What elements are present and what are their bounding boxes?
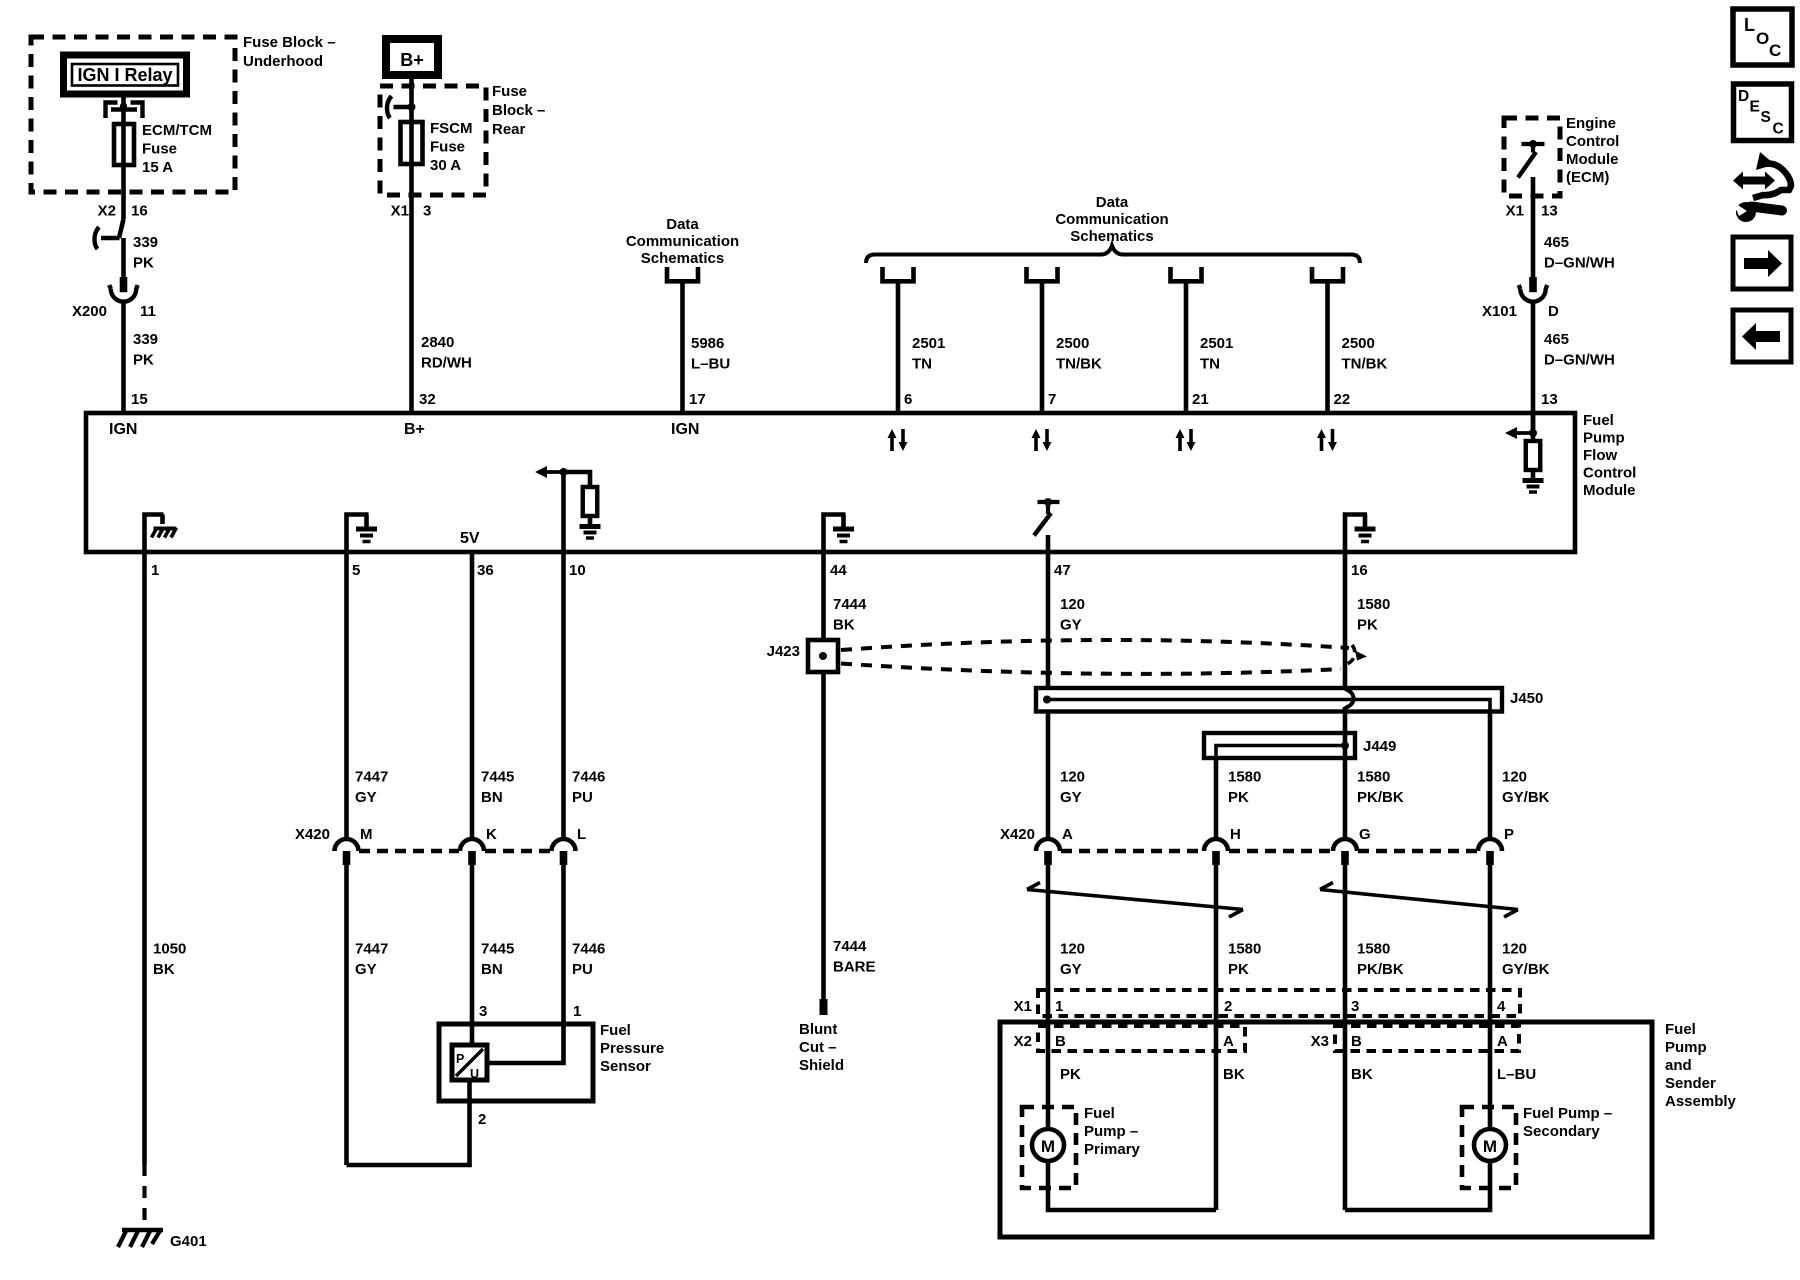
svg-text:RD/WH: RD/WH xyxy=(421,355,472,372)
svg-text:44: 44 xyxy=(830,562,847,579)
svg-text:2: 2 xyxy=(1224,998,1232,1015)
svg-text:Cut –: Cut – xyxy=(799,1039,837,1056)
svg-text:7446: 7446 xyxy=(572,769,605,786)
wire 120 GY pin47 to J450 xyxy=(1046,552,1051,688)
labels X1 pins 1 2 3 4 xyxy=(1055,998,1506,1015)
icon hand with arrows and wrench xyxy=(1733,152,1791,222)
svg-text:X1: X1 xyxy=(1506,203,1524,220)
svg-text:BK: BK xyxy=(1223,1066,1245,1083)
svg-text:A: A xyxy=(1062,826,1073,843)
wire 1050 BK xyxy=(142,552,147,1164)
svg-text:PK: PK xyxy=(133,255,154,272)
svg-text:A: A xyxy=(1497,1033,1508,1050)
CAN bus arrows xyxy=(1178,437,1182,451)
svg-text:A: A xyxy=(1223,1033,1234,1050)
svg-text:GY/BK: GY/BK xyxy=(1502,961,1550,978)
svg-text:Data: Data xyxy=(1096,194,1129,211)
terminal hook at FSCM fuse xyxy=(394,105,412,110)
ECM dashed box xyxy=(1504,118,1560,196)
svg-text:Underhood: Underhood xyxy=(243,53,323,70)
wire ECM pin13 xyxy=(1531,177,1536,277)
svg-text:IGN I Relay: IGN I Relay xyxy=(77,65,172,85)
svg-text:32: 32 xyxy=(419,391,436,408)
svg-text:2501: 2501 xyxy=(1200,335,1233,352)
svg-text:7445: 7445 xyxy=(481,769,514,786)
svg-text:B: B xyxy=(1055,1033,1066,1050)
svg-text:M: M xyxy=(1041,1137,1055,1156)
svg-text:7447: 7447 xyxy=(355,769,388,786)
svg-text:Shield: Shield xyxy=(799,1057,844,1074)
X420 dashed link H-G xyxy=(1229,849,1332,853)
svg-text:PU: PU xyxy=(572,789,593,806)
connector X2 dashed row xyxy=(1038,1026,1245,1051)
splice J423 xyxy=(808,640,838,672)
svg-text:5986: 5986 xyxy=(691,335,724,352)
svg-text:O: O xyxy=(1756,29,1769,48)
svg-text:Schematics: Schematics xyxy=(641,250,724,267)
off-page bracket data wire 21 xyxy=(1171,267,1202,281)
svg-text:X1: X1 xyxy=(1014,998,1032,1015)
splice pack J450 xyxy=(1036,688,1502,712)
svg-text:16: 16 xyxy=(1351,562,1368,579)
svg-text:2500: 2500 xyxy=(1342,335,1375,352)
svg-text:Fuel: Fuel xyxy=(600,1022,631,1039)
svg-text:X3: X3 xyxy=(1311,1033,1329,1050)
svg-text:465: 465 xyxy=(1544,331,1569,348)
svg-text:13: 13 xyxy=(1541,391,1558,408)
connector X420 terminal K xyxy=(460,839,484,851)
svg-text:B+: B+ xyxy=(400,50,424,70)
svg-text:1: 1 xyxy=(1055,998,1063,1015)
svg-text:Module: Module xyxy=(1566,151,1619,168)
icon arrow right box xyxy=(1733,237,1791,289)
wire 5986 L-BU xyxy=(680,281,685,413)
wire 7446 PU upper xyxy=(561,552,566,839)
B+ feed box xyxy=(386,39,438,75)
svg-text:J423: J423 xyxy=(767,643,800,660)
off-page bracket data wire 6 xyxy=(883,267,914,281)
svg-text:7: 7 xyxy=(1048,391,1056,408)
X420 dashed link M-K xyxy=(359,849,459,853)
wire 2500 TN/BK pin 7 xyxy=(1040,281,1045,413)
fuel pressure sensor box xyxy=(439,1024,593,1101)
svg-text:120: 120 xyxy=(1502,769,1527,786)
wire 2840 RD/WH xyxy=(409,195,414,413)
svg-text:Communication: Communication xyxy=(626,233,739,250)
svg-text:BN: BN xyxy=(481,789,503,806)
connector X420 terminal P xyxy=(1478,839,1502,851)
svg-text:X101: X101 xyxy=(1482,303,1517,320)
svg-text:ECM/TCM: ECM/TCM xyxy=(142,122,212,139)
shield twisted pair dashed ellipse xyxy=(841,640,1367,674)
pin10 internal: 5V pull-up arrow resistor ground xyxy=(535,466,601,552)
svg-text:X2: X2 xyxy=(98,203,116,220)
svg-text:GY: GY xyxy=(355,961,377,978)
labels X3 pins B A xyxy=(1351,1033,1508,1050)
connector X3 dashed row xyxy=(1335,1026,1519,1051)
off-page bracket data wire 22 xyxy=(1312,267,1343,281)
connector X420 terminal A xyxy=(1036,839,1060,851)
svg-text:BARE: BARE xyxy=(833,959,876,976)
svg-text:465: 465 xyxy=(1544,234,1569,251)
wire primary pump loop xyxy=(1048,1161,1216,1210)
icon LOC box xyxy=(1733,9,1792,65)
svg-text:GY: GY xyxy=(1060,789,1082,806)
svg-text:Data: Data xyxy=(666,216,699,233)
wire secondary pump loop xyxy=(1345,1161,1490,1210)
wire 7447 GY upper xyxy=(344,552,349,839)
svg-text:22: 22 xyxy=(1334,391,1351,408)
svg-text:3: 3 xyxy=(479,1003,487,1020)
svg-text:Pump: Pump xyxy=(1583,430,1625,447)
in-line connector X101 terminal D xyxy=(1529,277,1537,292)
svg-text:M: M xyxy=(360,826,373,843)
svg-text:K: K xyxy=(486,826,497,843)
svg-text:S: S xyxy=(1761,109,1771,126)
connector X420 terminal G xyxy=(1333,839,1357,851)
svg-text:PK: PK xyxy=(133,352,154,369)
svg-text:X2: X2 xyxy=(1014,1033,1032,1050)
pin1 internal chassis ground xyxy=(145,515,177,553)
svg-text:PK: PK xyxy=(1357,617,1378,634)
svg-text:P: P xyxy=(1504,826,1514,843)
icon DESC box xyxy=(1734,84,1792,141)
svg-text:4: 4 xyxy=(1497,998,1506,1015)
svg-text:Fuel Pump –: Fuel Pump – xyxy=(1523,1105,1612,1122)
svg-text:U: U xyxy=(470,1067,479,1081)
svg-text:120: 120 xyxy=(1060,941,1085,958)
fuel pump primary dashed box xyxy=(1022,1107,1076,1188)
wire 2500 TN/BK pin 22 xyxy=(1325,281,1330,413)
svg-text:TN/BK: TN/BK xyxy=(1342,356,1388,373)
svg-text:D: D xyxy=(1738,88,1749,105)
svg-text:47: 47 xyxy=(1054,562,1071,579)
connector X420 terminal H xyxy=(1204,839,1228,851)
wire 7445 BN lower xyxy=(470,865,475,1024)
wire 339 PK lower xyxy=(121,303,126,413)
svg-text:30 A: 30 A xyxy=(430,157,461,174)
fuse F1 ECM/TCM 15A body xyxy=(114,108,134,192)
svg-text:1: 1 xyxy=(151,562,159,579)
svg-text:2501: 2501 xyxy=(912,335,945,352)
svg-text:J450: J450 xyxy=(1510,690,1543,707)
svg-text:21: 21 xyxy=(1192,391,1209,408)
svg-text:GY/BK: GY/BK xyxy=(1502,789,1550,806)
svg-text:G: G xyxy=(1359,826,1371,843)
fuel pump and sender assembly box xyxy=(1000,1022,1652,1237)
wire 7445 BN upper xyxy=(470,552,475,839)
wire 7444 BK to shield end xyxy=(821,672,826,999)
svg-text:Engine: Engine xyxy=(1566,115,1616,132)
svg-text:H: H xyxy=(1230,826,1241,843)
svg-text:BK: BK xyxy=(153,961,175,978)
svg-text:B: B xyxy=(1351,1033,1362,1050)
motor M secondary xyxy=(1474,1129,1506,1161)
wire 339 PK upper xyxy=(121,238,126,277)
module box Fuel Pump Flow Control Module xyxy=(86,413,1575,552)
svg-text:5: 5 xyxy=(352,562,360,579)
connector X420 terminal M xyxy=(335,839,359,851)
wire B+ to junction xyxy=(409,76,414,195)
svg-text:Control: Control xyxy=(1566,133,1619,150)
wire 2501 TN pin 21 xyxy=(1184,281,1189,413)
svg-text:Control: Control xyxy=(1583,465,1636,482)
CAN bus arrows xyxy=(1034,437,1038,451)
svg-text:B+: B+ xyxy=(404,421,425,438)
wire 120 GY/BK J450 to X420 P xyxy=(1488,711,1493,839)
fuse block rear dashed box xyxy=(380,86,486,195)
svg-text:6: 6 xyxy=(904,391,912,408)
svg-text:10: 10 xyxy=(569,562,586,579)
module pin numbers bottom xyxy=(151,562,1368,579)
svg-text:1580: 1580 xyxy=(1228,769,1261,786)
svg-text:Fuel: Fuel xyxy=(1665,1021,1696,1038)
svg-text:7446: 7446 xyxy=(572,941,605,958)
svg-text:IGN: IGN xyxy=(109,421,137,438)
blunt cut shield terminal xyxy=(820,999,828,1015)
svg-text:Fuse: Fuse xyxy=(492,83,527,100)
svg-text:PK/BK: PK/BK xyxy=(1357,789,1404,806)
relay IGN I Relay box xyxy=(64,55,187,94)
in-line connector X200 terminal 11 xyxy=(120,277,128,292)
fuse holder clips xyxy=(106,102,143,118)
pressure transducer P/U symbol xyxy=(452,1045,487,1081)
svg-text:5V: 5V xyxy=(460,530,480,547)
svg-text:BN: BN xyxy=(481,961,503,978)
svg-text:339: 339 xyxy=(133,234,158,251)
labels X2 pins B A xyxy=(1055,1033,1234,1050)
fuel pump secondary dashed box xyxy=(1462,1107,1516,1188)
fuse block underhood dashed box xyxy=(31,37,235,192)
svg-text:15: 15 xyxy=(131,391,148,408)
svg-text:C: C xyxy=(1769,41,1781,60)
connector terminal hook X2-16 xyxy=(101,236,120,241)
wire 1580 PK J449 to X420 H xyxy=(1214,758,1219,839)
svg-text:Rear: Rear xyxy=(492,121,526,138)
svg-text:1: 1 xyxy=(573,1003,581,1020)
X420 dashed link K-L xyxy=(485,849,550,853)
pin13 internal: arrow junction resistor ground xyxy=(1505,413,1544,492)
wire 120 GY J450 to X420 A xyxy=(1046,711,1051,839)
svg-text:Sender: Sender xyxy=(1665,1075,1716,1092)
X420 dashed link G-P xyxy=(1358,849,1477,853)
wire relay to fuse holder xyxy=(121,94,126,108)
wires A H G P below connector xyxy=(1048,865,1490,1210)
svg-text:3: 3 xyxy=(1351,998,1359,1015)
svg-text:D–GN/WH: D–GN/WH xyxy=(1544,255,1615,272)
svg-text:Pressure: Pressure xyxy=(600,1040,664,1057)
motor M primary xyxy=(1032,1129,1064,1161)
svg-text:TN: TN xyxy=(1200,356,1220,373)
CAN bus arrows xyxy=(1320,437,1324,451)
svg-text:120: 120 xyxy=(1060,769,1085,786)
svg-text:X200: X200 xyxy=(72,303,107,320)
svg-text:IGN: IGN xyxy=(671,421,699,438)
svg-text:TN/BK: TN/BK xyxy=(1056,356,1102,373)
svg-text:X1: X1 xyxy=(391,203,409,220)
svg-text:PU: PU xyxy=(572,961,593,978)
wire 465 D-GN/WH lower xyxy=(1531,303,1536,433)
svg-text:C: C xyxy=(1773,121,1784,138)
svg-text:2840: 2840 xyxy=(421,334,454,351)
wire 1050 BK dashed tail xyxy=(142,1164,146,1228)
crossover arrow right pair xyxy=(1320,883,1518,918)
fuse F2 FSCM 30A body xyxy=(401,122,423,164)
splice pack J449 xyxy=(1204,733,1355,758)
pin44 internal earth ground xyxy=(824,515,846,553)
svg-text:Pump: Pump xyxy=(1665,1039,1707,1056)
brace over data wires xyxy=(866,246,1360,264)
wire 1580 PK pin16 xyxy=(1345,552,1354,839)
svg-text:7447: 7447 xyxy=(355,941,388,958)
svg-text:GY: GY xyxy=(1060,961,1082,978)
pin16 internal earth ground xyxy=(1345,515,1367,553)
wire 7447 GY lower xyxy=(344,865,349,1165)
svg-text:FSCM: FSCM xyxy=(430,120,473,137)
svg-text:7444: 7444 xyxy=(833,596,867,613)
svg-text:Flow: Flow xyxy=(1583,447,1617,464)
svg-text:36: 36 xyxy=(477,562,494,579)
wire sensor pin2 down xyxy=(467,1101,472,1165)
svg-text:339: 339 xyxy=(133,331,158,348)
svg-text:(ECM): (ECM) xyxy=(1566,169,1609,186)
X420 dashed link A-H xyxy=(1061,849,1203,853)
svg-text:7445: 7445 xyxy=(481,941,514,958)
svg-text:11: 11 xyxy=(140,303,156,320)
wire 7446 PU lower xyxy=(561,865,566,1024)
svg-text:Fuel: Fuel xyxy=(1084,1105,1115,1122)
svg-text:L: L xyxy=(1744,15,1755,35)
svg-text:M: M xyxy=(1483,1137,1497,1156)
svg-text:3: 3 xyxy=(423,203,431,220)
svg-text:16: 16 xyxy=(131,203,148,220)
svg-text:PK/BK: PK/BK xyxy=(1357,961,1404,978)
svg-text:Assembly: Assembly xyxy=(1665,1093,1737,1110)
svg-text:G401: G401 xyxy=(170,1233,207,1250)
switch inside ECM xyxy=(1518,140,1545,178)
wire loop sensor return xyxy=(347,1163,470,1165)
pin47 internal switch xyxy=(1034,498,1060,552)
svg-text:7444: 7444 xyxy=(833,938,867,955)
off-page bracket data wire 7 xyxy=(1027,267,1058,281)
svg-text:120: 120 xyxy=(1060,596,1085,613)
svg-text:X420: X420 xyxy=(1000,826,1035,843)
svg-text:P: P xyxy=(456,1052,464,1066)
wire fuse to X2 exit xyxy=(121,192,126,219)
svg-text:J449: J449 xyxy=(1363,738,1396,755)
svg-text:GY: GY xyxy=(1060,617,1082,634)
svg-text:Fuse Block –: Fuse Block – xyxy=(243,34,336,51)
svg-text:17: 17 xyxy=(689,391,706,408)
svg-text:PK: PK xyxy=(1060,1066,1081,1083)
svg-text:1580: 1580 xyxy=(1357,769,1390,786)
svg-text:L–BU: L–BU xyxy=(1497,1066,1536,1083)
svg-text:D–GN/WH: D–GN/WH xyxy=(1544,352,1615,369)
svg-text:1580: 1580 xyxy=(1228,941,1261,958)
svg-text:Module: Module xyxy=(1583,482,1636,499)
svg-text:1580: 1580 xyxy=(1357,941,1390,958)
connector X420 terminal L xyxy=(552,839,576,851)
svg-text:X420: X420 xyxy=(295,826,330,843)
CAN bus arrows pin6 xyxy=(890,437,894,451)
ground G401 chassis symbol xyxy=(118,1229,163,1247)
wire 7444 BK xyxy=(821,552,826,640)
wire 2501 TN pin 6 xyxy=(896,281,901,413)
icon arrow left box xyxy=(1733,310,1791,362)
svg-text:Primary: Primary xyxy=(1084,1141,1141,1158)
svg-text:TN: TN xyxy=(912,356,932,373)
svg-text:Secondary: Secondary xyxy=(1523,1123,1600,1140)
svg-text:1050: 1050 xyxy=(153,941,186,958)
svg-text:Pump –: Pump – xyxy=(1084,1123,1138,1140)
svg-text:Communication: Communication xyxy=(1055,211,1168,228)
svg-text:Fuel: Fuel xyxy=(1583,412,1614,429)
sensor internal wire pin3 through transducer xyxy=(470,1024,475,1045)
svg-text:2: 2 xyxy=(478,1111,486,1128)
svg-text:Fuse: Fuse xyxy=(430,139,465,156)
svg-text:L: L xyxy=(577,826,586,843)
off-page connector bracket pin17 xyxy=(667,267,698,281)
svg-text:Fuse: Fuse xyxy=(142,141,177,158)
sensor internal wire pin1 to transducer xyxy=(487,1024,564,1063)
pin5 internal earth ground xyxy=(347,515,369,553)
svg-text:BK: BK xyxy=(833,617,855,634)
svg-text:120: 120 xyxy=(1502,941,1527,958)
svg-text:Sensor: Sensor xyxy=(600,1058,651,1075)
svg-text:L–BU: L–BU xyxy=(691,356,730,373)
svg-text:13: 13 xyxy=(1541,203,1558,220)
svg-text:BK: BK xyxy=(1351,1066,1373,1083)
svg-text:15 A: 15 A xyxy=(142,159,173,176)
svg-text:and: and xyxy=(1665,1057,1692,1074)
svg-text:D: D xyxy=(1548,303,1559,320)
svg-text:PK: PK xyxy=(1228,961,1249,978)
svg-text:GY: GY xyxy=(355,789,377,806)
svg-text:PK: PK xyxy=(1228,789,1249,806)
svg-text:Blunt: Blunt xyxy=(799,1021,837,1038)
crossover arrow left pair xyxy=(1027,883,1243,918)
svg-text:Block –: Block – xyxy=(492,102,545,119)
svg-text:2500: 2500 xyxy=(1056,335,1089,352)
svg-text:1580: 1580 xyxy=(1357,596,1390,613)
connector X1 dashed row xyxy=(1038,990,1520,1016)
svg-text:E: E xyxy=(1750,99,1760,116)
